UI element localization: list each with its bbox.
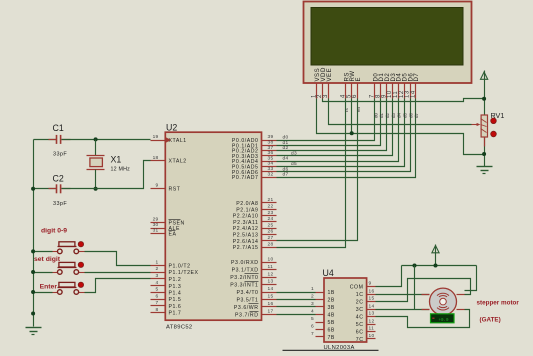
U4 pin 7 7B: [316, 336, 325, 338]
svg-text:28: 28: [268, 241, 274, 247]
U2 pin 26 P2.5/A13: [262, 234, 277, 236]
svg-text:17: 17: [268, 309, 274, 315]
push button: Enter: [53, 292, 58, 294]
U2 pin 31 EA: [151, 233, 166, 235]
U4 pin 5 5B: [316, 322, 325, 324]
svg-text:P2.1/A9: P2.1/A9: [236, 207, 258, 213]
svg-text:19: 19: [153, 134, 159, 140]
U2 pin 3 P1.2: [151, 278, 166, 280]
svg-text:5B: 5B: [328, 320, 335, 326]
wire P3.5 to U4 2B: [277, 299, 316, 301]
RV1 decrement red dot: [491, 131, 497, 137]
svg-text:P1.3: P1.3: [169, 284, 182, 290]
svg-text:P3.3/INT1: P3.3/INT1: [230, 283, 258, 289]
svg-text:COM: COM: [350, 285, 364, 291]
U2 pin 10 P3.0/RXD: [262, 262, 277, 264]
svg-text:P1.6: P1.6: [169, 304, 182, 310]
svg-text:5: 5: [156, 287, 159, 293]
svg-text:23: 23: [268, 210, 274, 216]
svg-text:3: 3: [156, 273, 159, 279]
LCD pin 5 RW stub: [351, 83, 353, 99]
stepper motor speed display: [431, 314, 455, 323]
U2 pin 7 P1.6: [151, 305, 166, 307]
wire net d0: [277, 99, 375, 141]
U2 pin 8 P1.7: [151, 312, 166, 314]
U2 pin 15 P3.5/T1: [262, 299, 277, 301]
junction rail btn3: [31, 290, 35, 294]
U2 pin 9 RST: [151, 188, 166, 190]
LCD pin 2 VDD stub: [322, 83, 324, 99]
svg-text:13: 13: [369, 311, 375, 317]
U2 pin 4 P1.3: [151, 285, 166, 287]
LCD pin 12 D5 stub: [404, 83, 406, 99]
svg-text:14: 14: [411, 90, 417, 98]
svg-text:P1.4: P1.4: [169, 291, 182, 297]
svg-text:P2.0/A8: P2.0/A8: [236, 201, 258, 207]
stepper motor shaft: [440, 298, 447, 305]
wire net d6: [277, 99, 411, 172]
svg-text:4B: 4B: [328, 313, 335, 319]
U4 pin 4 4B: [316, 314, 325, 316]
LCD pin 8 D1 stub: [380, 83, 382, 99]
U2 pin 37 P0.2/AD2: [262, 150, 277, 152]
LCD pin 10 D3 stub: [392, 83, 394, 99]
svg-text:2: 2: [156, 266, 159, 272]
wire 2C to motor right-top: [376, 279, 471, 302]
LCD pin 4 RS stub: [345, 83, 347, 99]
LCD pin 9 D2 stub: [386, 83, 388, 99]
U2 pin 34 P0.5/AD5: [262, 166, 277, 168]
RV1 wiper arrow: [472, 124, 478, 126]
U4 pin 15 2C: [367, 301, 376, 303]
LCD pin 6 E stub: [357, 83, 359, 99]
U2 pin 11 P3.1/TXD: [262, 269, 277, 271]
svg-text:4: 4: [156, 280, 159, 286]
svg-text:29: 29: [153, 217, 159, 223]
svg-text:13: 13: [268, 279, 274, 285]
wire rail end to motor right-top area: [465, 266, 477, 291]
junction rail lower: [31, 312, 35, 316]
svg-text:8: 8: [156, 307, 159, 313]
svg-text:9: 9: [369, 281, 372, 287]
stepper motor top arcs: [437, 293, 449, 295]
wire net d4: [277, 99, 399, 162]
svg-text:38: 38: [268, 140, 274, 146]
junction rail C2: [31, 187, 35, 191]
LCD screen: [311, 8, 463, 66]
svg-text:(GATE): (GATE): [480, 317, 501, 324]
U2 pin 24 P2.3/A11: [262, 221, 277, 223]
svg-text:6B: 6B: [328, 328, 335, 334]
svg-text:d6: d6: [408, 112, 413, 118]
LCD pin 3 VEE stub: [328, 83, 330, 99]
wire net d5: [277, 99, 405, 167]
svg-text:4: 4: [311, 309, 314, 315]
U2 pin 38 P0.1/AD1: [262, 145, 277, 147]
svg-text:33pF: 33pF: [53, 152, 67, 158]
wire P3.6 to U4 3B: [277, 306, 316, 308]
push button: set digit: [53, 272, 58, 274]
wire net d3: [277, 99, 393, 156]
svg-text:P2.5/A13: P2.5/A13: [233, 233, 259, 239]
U4 pin 6 6B: [316, 329, 325, 331]
svg-text:25: 25: [268, 222, 274, 228]
svg-text:X1: X1: [111, 155, 122, 165]
svg-text:P3.2/INT0: P3.2/INT0: [230, 275, 258, 281]
U4 pin 12 5C: [367, 324, 376, 326]
wire U4 COM to rail: [376, 266, 402, 287]
svg-text:11: 11: [268, 264, 274, 270]
svg-text:2: 2: [311, 294, 314, 300]
svg-text:5: 5: [311, 316, 314, 322]
svg-text:P3.0/RXD: P3.0/RXD: [231, 260, 258, 266]
svg-text:d7: d7: [414, 112, 419, 118]
svg-text:EA: EA: [169, 232, 177, 238]
svg-text:P3.7/RD: P3.7/RD: [235, 313, 258, 319]
svg-text:10: 10: [369, 333, 375, 339]
U2 pin 14 P3.4/T0: [262, 292, 277, 294]
svg-text:P2.4/A12: P2.4/A12: [233, 226, 259, 232]
svg-text:18: 18: [153, 155, 159, 161]
wire +5V to RV1 top: [484, 71, 486, 115]
U2 pin 30 ALE: [151, 228, 166, 230]
svg-text:15: 15: [268, 294, 274, 300]
svg-text:RST: RST: [169, 187, 181, 193]
wire X1 top lead: [95, 140, 97, 156]
U2 pin 35 P0.4/AD4: [262, 161, 277, 163]
stepper motor pins: [422, 294, 430, 296]
svg-text:d1: d1: [379, 112, 384, 118]
svg-text:P0.7/AD7: P0.7/AD7: [232, 175, 259, 181]
svg-text:d7: d7: [283, 172, 289, 178]
U2 pin 33 P0.6/AD6: [262, 171, 277, 173]
U2 XTAL1 input arrow: [166, 137, 171, 142]
U4 pin 16 1C: [367, 294, 376, 296]
wire net d7: [277, 99, 416, 178]
U2 pin 1 P1.0/T2: [151, 265, 166, 267]
svg-text:39: 39: [268, 134, 274, 140]
svg-text:P1.2: P1.2: [169, 277, 182, 283]
microcontroller U2 AT89C52 body: [165, 132, 261, 320]
U2 pin 2 P1.1/T2EX: [151, 272, 166, 274]
wire C2 left lead: [34, 188, 57, 190]
power symbol (arrow): [481, 72, 488, 79]
svg-text:P3.6/WR: P3.6/WR: [234, 305, 259, 311]
U2 pin 17 P3.7/RD: [262, 314, 277, 316]
svg-text:XTAL2: XTAL2: [169, 159, 187, 165]
power symbol (motor rail): [432, 246, 439, 253]
wire rail to button3: [34, 292, 53, 294]
svg-text:15: 15: [369, 296, 375, 302]
junction rail btn1: [31, 249, 35, 253]
svg-text:set digit: set digit: [34, 256, 61, 263]
svg-text:U4: U4: [323, 268, 334, 278]
stepper motor bottom arcs: [437, 308, 449, 310]
svg-text:12: 12: [369, 318, 375, 324]
svg-text:d5: d5: [402, 112, 407, 118]
wire rail to button1: [34, 251, 53, 253]
potentiometer RV1 body: [481, 115, 487, 137]
U4 pin 14 3C: [367, 309, 376, 311]
svg-text:Enter: Enter: [40, 283, 58, 290]
svg-text:12 MHz: 12 MHz: [111, 167, 131, 173]
wire VSS/RW to ground: [317, 99, 485, 155]
svg-text:E: E: [355, 77, 362, 82]
U2 pin 6 P1.5: [151, 299, 166, 301]
LCD pin 14 D7 stub: [415, 83, 417, 99]
ground symbol (right): [477, 166, 493, 168]
svg-text:14: 14: [268, 286, 274, 292]
svg-text:12: 12: [268, 271, 274, 277]
U2 pin 5 P1.4: [151, 292, 166, 294]
U2 pin 12 P3.2/INT0: [262, 277, 277, 279]
wire P3.7 to U4 4B: [277, 314, 316, 316]
svg-text:3B: 3B: [328, 305, 335, 311]
wire btn3 to P1.2: [85, 279, 151, 293]
svg-text:31: 31: [153, 228, 159, 234]
svg-text:22: 22: [268, 204, 274, 210]
junction RV1 ground: [482, 152, 486, 156]
junction X1/C2: [94, 187, 98, 191]
svg-text:36: 36: [268, 150, 274, 156]
wire VDD to +5V: [323, 99, 485, 102]
U4 pin 10 7C: [367, 338, 376, 340]
svg-text:2B: 2B: [328, 298, 335, 304]
svg-text:+0.0: +0.0: [438, 319, 449, 323]
wire RW: [351, 99, 353, 134]
wire btn2 to P1.1: [85, 272, 151, 274]
U4 pin 13 4C: [367, 316, 376, 318]
junction rail btn2: [31, 270, 35, 274]
svg-text:stepper motor: stepper motor: [477, 300, 520, 307]
wire C1 left lead: [34, 139, 57, 141]
svg-text:1: 1: [156, 260, 159, 266]
svg-text:2C: 2C: [356, 300, 364, 306]
wire 4C to motor right-bottom: [376, 310, 470, 328]
svg-text:AT89C52: AT89C52: [166, 325, 193, 331]
svg-text:U2: U2: [166, 123, 177, 133]
svg-text:16: 16: [369, 288, 375, 294]
U2 pin 32 P0.7/AD7: [262, 177, 277, 179]
svg-text:6: 6: [352, 94, 358, 98]
svg-text:1C: 1C: [356, 292, 364, 298]
svg-text:D7: D7: [413, 73, 420, 82]
LCD pin 11 D4 stub: [398, 83, 400, 99]
svg-text:P1.5: P1.5: [169, 297, 182, 303]
junction rail power: [434, 264, 438, 268]
wire net rs: [277, 99, 346, 248]
svg-text:3C: 3C: [356, 307, 364, 313]
U2 pin 21 P2.0/A8: [262, 202, 277, 204]
push button: digit 0-9: [53, 251, 58, 253]
svg-text:C1: C1: [53, 123, 64, 133]
svg-text:d4: d4: [283, 156, 289, 162]
svg-text:C2: C2: [53, 174, 64, 184]
U2 pin 22 P2.1/A9: [262, 209, 277, 211]
LCD pin 7 D0 stub: [374, 83, 376, 99]
svg-text:26: 26: [268, 229, 274, 235]
svg-text:27: 27: [268, 235, 274, 241]
svg-text:33pF: 33pF: [53, 201, 67, 207]
wire left rail: [33, 140, 35, 327]
svg-text:P3.5/T1: P3.5/T1: [236, 298, 258, 304]
LCD module LCD1 board: [304, 2, 472, 84]
svg-text:en: en: [356, 106, 361, 112]
U4 pin 9 COM: [367, 286, 376, 288]
wire C1 to XTAL1: [62, 139, 151, 141]
svg-text:34: 34: [268, 161, 274, 167]
svg-text:10: 10: [268, 256, 274, 262]
wire P3.4 to U4 1B: [277, 292, 316, 294]
svg-text:6: 6: [156, 293, 159, 299]
svg-text:XTAL1: XTAL1: [169, 138, 187, 144]
svg-text:37: 37: [268, 145, 274, 151]
driver U4 ULN2003A body: [324, 278, 367, 342]
U2 pin 13 P3.3/INT1: [262, 284, 277, 286]
svg-text:1B: 1B: [328, 290, 335, 296]
svg-text:6: 6: [311, 324, 314, 330]
ground symbol (bottom left): [26, 327, 42, 329]
wire rail drop to 3C net: [414, 266, 416, 310]
bottom edge line: [283, 350, 379, 352]
svg-text:d2: d2: [385, 112, 390, 118]
svg-text:d4: d4: [397, 112, 402, 118]
svg-text:P3.4/T0: P3.4/T0: [236, 290, 258, 296]
U2 pin 29 PSEN: [151, 222, 166, 224]
U2 pin 27 P2.6/A14: [262, 240, 277, 242]
wire net d1: [277, 99, 381, 146]
svg-text:5C: 5C: [356, 322, 364, 328]
U2 pin 25 P2.4/A12: [262, 228, 277, 230]
svg-text:24: 24: [268, 216, 274, 222]
svg-text:P2.3/A11: P2.3/A11: [233, 220, 258, 226]
svg-text:d0: d0: [283, 135, 289, 141]
svg-text:7: 7: [311, 331, 314, 337]
svg-text:30: 30: [153, 222, 159, 228]
junction C1/X1: [94, 137, 98, 141]
svg-text:P2.2/A10: P2.2/A10: [233, 214, 259, 220]
svg-text:16: 16: [268, 301, 274, 307]
svg-text:P1.1/T2EX: P1.1/T2EX: [169, 270, 199, 276]
U2 pin 19 XTAL1: [151, 140, 166, 142]
svg-text:d0: d0: [373, 112, 378, 118]
svg-text:35: 35: [268, 155, 274, 161]
wire X1 to XTAL2: [96, 161, 151, 189]
wire power stem: [435, 245, 437, 266]
U4 pin 3 3B: [316, 306, 325, 308]
U4 pin 2 2B: [316, 299, 325, 301]
wire VEE to RV1 wiper: [329, 99, 472, 125]
RV1 increment red dot: [491, 118, 497, 124]
svg-text:P2.6/A14: P2.6/A14: [233, 239, 259, 245]
U2 pin 39 P0.0/AD0: [262, 140, 277, 142]
svg-text:7B: 7B: [328, 335, 335, 341]
U2 pin 23 P2.2/A10: [262, 215, 277, 217]
U2 pin 16 P3.6/WR: [262, 306, 277, 308]
wire RV1 bottom to ground: [484, 137, 486, 167]
svg-text:P1.0/T2: P1.0/T2: [169, 263, 191, 269]
wire motor +V rail: [402, 265, 477, 267]
svg-text:d3: d3: [391, 112, 396, 118]
wire rail to button2: [34, 272, 53, 274]
wire 3C to motor left-bottom: [376, 309, 430, 311]
svg-text:21: 21: [268, 197, 274, 203]
wire C2 to X1: [62, 188, 96, 190]
U4 pin 11 6C: [367, 331, 376, 333]
svg-text:33: 33: [268, 166, 274, 172]
junction VDD/+5V: [482, 97, 486, 101]
svg-text:digit 0-9: digit 0-9: [41, 227, 67, 234]
svg-text:4C: 4C: [356, 315, 364, 321]
svg-text:P3.1/TXD: P3.1/TXD: [232, 268, 259, 274]
wire X1 bottom lead: [95, 170, 97, 189]
U2 pin 36 P0.3/AD3: [262, 155, 277, 157]
wire btn1 to P1.0: [85, 252, 151, 266]
svg-text:11: 11: [369, 326, 375, 332]
svg-text:P1.7: P1.7: [169, 311, 182, 317]
wire net en: [277, 99, 358, 241]
wire net d2: [277, 99, 387, 151]
LCD pin 13 D6 stub: [410, 83, 412, 99]
stepper motor body: [430, 288, 457, 315]
svg-text:VEE: VEE: [326, 68, 333, 82]
junction RW/VSS: [350, 131, 354, 135]
svg-text:7C: 7C: [356, 337, 364, 343]
svg-text:P2.7/A15: P2.7/A15: [233, 245, 259, 251]
U4 pin 1 1B: [316, 292, 325, 294]
svg-text:6C: 6C: [356, 329, 364, 335]
U2 pin 28 P2.7/A15: [262, 247, 277, 249]
svg-text:3: 3: [323, 94, 329, 98]
svg-text:32: 32: [268, 171, 274, 177]
svg-text:9: 9: [156, 183, 159, 189]
LCD pin 1 VSS stub: [316, 83, 318, 99]
svg-text:1: 1: [311, 286, 314, 292]
wire 1C to motor left-top: [376, 294, 430, 296]
junction rail A: [413, 264, 417, 268]
U2 pin 18 XTAL2: [151, 160, 166, 162]
svg-text:14: 14: [369, 303, 375, 309]
svg-text:7: 7: [156, 300, 159, 306]
